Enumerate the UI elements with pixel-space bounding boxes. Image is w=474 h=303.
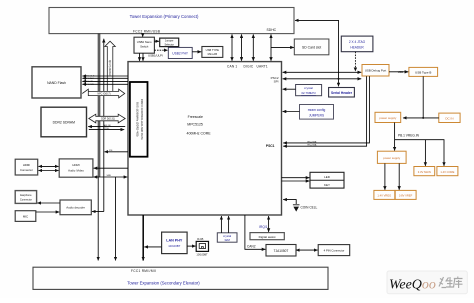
svg-text:RS-232A: RS-232A: [308, 144, 317, 147]
svg-text:32.768kHz: 32.768kHz: [301, 91, 316, 95]
svg-text:HDMI: HDMI: [72, 163, 79, 167]
svg-text:DDR2 SDRAM: DDR2 SDRAM: [53, 120, 76, 124]
svg-text:USB Type B: USB Type B: [415, 71, 431, 75]
svg-text:Connector: Connector: [20, 197, 32, 201]
svg-text:DDR D(0:31): DDR D(0:31): [101, 118, 115, 121]
svg-text:32M: 32M: [224, 238, 230, 242]
svg-text:D(0:15) MUXED: D(0:15) MUXED: [108, 60, 110, 77]
svg-text:BUS @266MHz (DDR2-400): BUS @266MHz (DDR2-400): [135, 102, 139, 136]
svg-text:KEY: KEY: [324, 183, 330, 187]
svg-text:DDR II CONTROLLER AND DATA: DDR II CONTROLLER AND DATA: [140, 99, 144, 140]
svg-text:CAN 1: CAN 1: [227, 65, 237, 69]
svg-text:Jumper: Jumper: [165, 39, 174, 43]
svg-text:Serial Header: Serial Header: [331, 91, 353, 95]
svg-text:CAN2: CAN2: [247, 245, 256, 249]
svg-text:SDHC: SDHC: [267, 28, 277, 32]
svg-text:CTRL: CTRL: [104, 128, 110, 130]
svg-text:SD Card slot: SD Card slot: [302, 45, 321, 49]
svg-text:WeeQoo: WeeQoo: [389, 278, 436, 293]
svg-text:Audio decoder: Audio decoder: [66, 206, 85, 210]
svg-text:1.4V VREG: 1.4V VREG: [377, 194, 391, 198]
svg-text:DIGIC: DIGIC: [244, 65, 254, 69]
svg-text:RJ45: RJ45: [197, 237, 204, 241]
svg-text:0.8V VREF: 0.8V VREF: [399, 194, 413, 198]
svg-text:10/100BT: 10/100BT: [168, 244, 180, 248]
svg-text:UART1: UART1: [257, 65, 268, 69]
svg-text:NFC IO(0:7): NFC IO(0:7): [97, 92, 110, 95]
svg-text:PSC1: PSC1: [266, 144, 275, 148]
svg-text:mram config: mram config: [308, 108, 326, 112]
svg-text:power supply: power supply: [379, 116, 397, 120]
svg-text:power supply: power supply: [383, 156, 401, 160]
svg-text:JUMPERS: JUMPERS: [309, 113, 324, 117]
svg-text:HDMI: HDMI: [23, 163, 30, 167]
svg-text:USB2 PHY: USB2 PHY: [172, 51, 189, 55]
svg-text:Freescale: Freescale: [188, 115, 203, 119]
svg-text:NFC R/B: NFC R/B: [85, 84, 94, 86]
svg-text:MIC: MIC: [23, 215, 28, 219]
svg-text:NAND Flash: NAND Flash: [47, 81, 66, 85]
svg-text:SPI: SPI: [274, 80, 279, 84]
svg-text:TJA1050T: TJA1050T: [274, 249, 289, 253]
svg-text:1.4V CORE: 1.4V CORE: [440, 170, 454, 174]
svg-text:NFC ALE: NFC ALE: [85, 77, 95, 80]
svg-text:10/100BT: 10/100BT: [196, 252, 208, 256]
svg-text:Earphone: Earphone: [20, 193, 32, 197]
svg-text:FCC1 RMII/MII: FCC1 RMII/MII: [131, 269, 156, 273]
svg-text:IRQ/1: IRQ/1: [259, 225, 268, 229]
svg-text:2 X 4 JTAG: 2 X 4 JTAG: [349, 40, 366, 44]
svg-text:NFC CE: NFC CE: [85, 81, 94, 83]
svg-text:USB Debug Port: USB Debug Port: [365, 69, 387, 73]
svg-text:RS-232B: RS-232B: [308, 141, 317, 143]
svg-text:Tower Expansion (Secondary Ele: Tower Expansion (Secondary Elevator): [127, 281, 200, 286]
svg-text:Digital assist: Digital assist: [259, 235, 276, 239]
svg-text:PB.1 VREG.IN: PB.1 VREG.IN: [398, 134, 420, 138]
svg-text:COIN CELL: COIN CELL: [301, 206, 318, 210]
svg-text:Audio /Video: Audio /Video: [68, 168, 84, 172]
svg-text:4 PIN Connector: 4 PIN Connector: [324, 249, 345, 253]
svg-text:USB TYPE: USB TYPE: [206, 48, 219, 52]
svg-text:LED: LED: [324, 175, 331, 179]
svg-text:LAN PHY: LAN PHY: [166, 239, 183, 243]
svg-text:3.3V MAIN: 3.3V MAIN: [418, 170, 431, 174]
svg-text:USB2 Nano: USB2 Nano: [137, 40, 152, 44]
svg-text:FCC2 RMII/USB: FCC2 RMII/USB: [133, 29, 160, 33]
svg-text:A(0:14): A(0:14): [104, 124, 111, 127]
svg-text:I2S: I2S: [109, 150, 113, 152]
svg-text:USB1/ULPI: USB1/ULPI: [148, 54, 163, 58]
svg-text:crystal: crystal: [304, 86, 313, 90]
svg-text:400MHz CORE: 400MHz CORE: [187, 131, 212, 135]
svg-text:DC IN: DC IN: [445, 117, 453, 121]
svg-text:SRU: SRU: [107, 175, 112, 177]
svg-text:Tower Expansion (Primary Conne: Tower Expansion (Primary Connect): [130, 14, 199, 19]
svg-text:Switch: Switch: [140, 45, 149, 49]
svg-text:MPC5125: MPC5125: [187, 123, 203, 127]
svg-text:Selector: Selector: [164, 42, 174, 46]
svg-text:Connector: Connector: [20, 168, 33, 172]
svg-text:HEADER: HEADER: [350, 45, 364, 49]
svg-text:Mini-AB: Mini-AB: [208, 52, 218, 56]
